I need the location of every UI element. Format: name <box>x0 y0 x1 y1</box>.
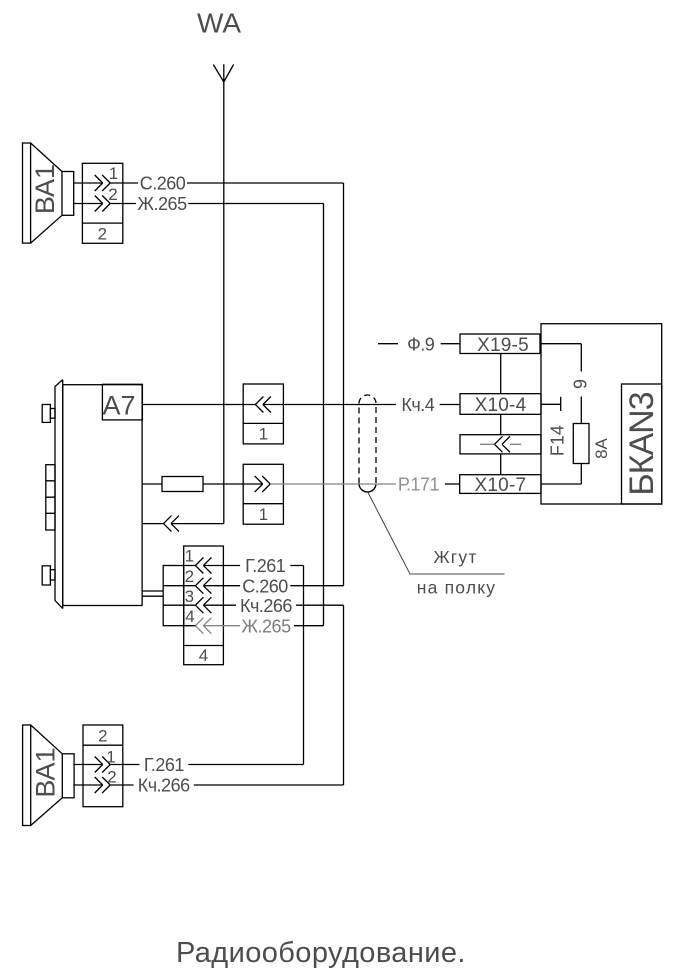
wire Kch.266 4-pin row3 <box>184 604 344 606</box>
svg-text:8А: 8А <box>592 437 611 458</box>
svg-text:Кч.266: Кч.266 <box>240 596 292 616</box>
wire C.260 top speaker <box>74 182 344 184</box>
svg-text:А7: А7 <box>102 390 135 420</box>
svg-text:Г.261: Г.261 <box>245 556 286 576</box>
pin chevrons top speaker row 1 <box>95 175 111 191</box>
chevrons 4-pin row3 <box>195 597 211 613</box>
wire P.171 black stub <box>445 483 460 485</box>
svg-text:WA: WA <box>197 8 241 39</box>
svg-text:9: 9 <box>571 379 591 389</box>
speaker BA1 bottom <box>23 725 75 826</box>
4-pin connector box <box>184 546 224 665</box>
4-pin connector comb <box>163 566 184 626</box>
wire vertical G.261 down to bottom speaker <box>303 566 305 765</box>
svg-text:2: 2 <box>107 768 116 787</box>
antenna WA <box>213 64 233 523</box>
wire Zh.265 4-pin row4 <box>184 625 324 627</box>
svg-text:Кч.4: Кч.4 <box>401 395 434 415</box>
svg-text:Ж.265: Ж.265 <box>241 616 291 636</box>
svg-text:Радиооборудование.: Радиооборудование. <box>176 937 466 969</box>
svg-text:2: 2 <box>108 185 117 204</box>
wire F.9 to X19-5 <box>441 343 461 345</box>
svg-text:С.260: С.260 <box>242 576 288 596</box>
svg-text:ВА1: ВА1 <box>30 164 60 214</box>
svg-text:на полку: на полку <box>417 578 497 598</box>
svg-text:1: 1 <box>185 547 194 566</box>
fuse F14 <box>573 424 589 464</box>
BKAN3 unit box <box>541 324 662 504</box>
chevrons 4-pin row2 <box>195 578 211 594</box>
wire radio row2 to box2 <box>142 483 263 485</box>
svg-text:Жгут: Жгут <box>433 547 477 567</box>
svg-text:3: 3 <box>185 587 194 606</box>
svg-text:Кч.266: Кч.266 <box>138 776 190 796</box>
wire vertical Zh.265 down to 4-pin connector <box>323 204 325 626</box>
radio A7 body <box>55 380 142 609</box>
connector of speaker BA1 bottom <box>83 725 123 807</box>
chevrons antenna plug <box>164 516 180 532</box>
chevrons in box 2 <box>255 476 271 492</box>
harness capsule dashed <box>359 395 376 492</box>
pin chevrons top speaker row 2 <box>95 196 111 212</box>
svg-text:С.260: С.260 <box>140 174 186 194</box>
wire vertical Kch.266 down to bottom speaker <box>343 605 345 785</box>
connector of speaker BA1 top <box>82 163 122 243</box>
grey wire P.171 from box2 to label <box>270 483 396 485</box>
svg-text:Г.261: Г.261 <box>144 755 185 775</box>
radio knob top <box>42 405 55 423</box>
chevrons 4-pin row4 grey <box>195 618 211 634</box>
terminal box X19-5 <box>460 334 540 354</box>
chevrons in box 1 <box>255 397 271 413</box>
radio knob bottom <box>42 566 55 585</box>
svg-text:БКАN3: БКАN3 <box>623 392 661 495</box>
antenna socket box <box>460 435 541 454</box>
fuse on radio row2 <box>162 477 203 492</box>
chevrons 4-pin row1 <box>195 558 211 574</box>
svg-text:Ж.265: Ж.265 <box>137 194 187 214</box>
wire F.9 dash <box>378 343 398 345</box>
terminal box X10-4 <box>460 394 541 415</box>
chevrons in antenna socket box <box>495 436 511 452</box>
svg-text:F14: F14 <box>547 425 567 456</box>
wire G.261 bottom speaker <box>73 764 303 766</box>
svg-text:4: 4 <box>199 646 208 665</box>
svg-text:2: 2 <box>98 224 107 243</box>
wire G.261 4-pin row1 <box>184 565 304 567</box>
svg-text:Р.171: Р.171 <box>398 475 440 495</box>
wire vertical C.260 down to 4-pin connector <box>343 183 345 586</box>
svg-text:Х10-4: Х10-4 <box>475 395 527 416</box>
svg-text:1: 1 <box>259 425 268 444</box>
wire Zh.265 top speaker <box>74 203 324 205</box>
pin chevrons bottom speaker row 1 <box>95 757 111 773</box>
grey line in antenna socket box <box>480 443 521 445</box>
svg-text:ВА1: ВА1 <box>31 747 61 797</box>
svg-text:Ф.9: Ф.9 <box>407 334 435 354</box>
connector U-box 2 <box>243 464 283 524</box>
pin chevrons bottom speaker row 2 <box>95 777 111 793</box>
leader line to harness label <box>368 493 505 575</box>
svg-text:2: 2 <box>98 726 107 745</box>
vertical link between terminal boxes <box>500 354 502 475</box>
wire antenna row to radio <box>143 523 224 525</box>
connector U-box 1 <box>243 384 283 444</box>
svg-text:1: 1 <box>259 505 268 524</box>
terminal stub of X10-4 <box>541 397 561 411</box>
wire Kch.266 bottom speaker <box>73 784 343 786</box>
svg-text:Х10-7: Х10-7 <box>475 475 527 496</box>
svg-text:1: 1 <box>109 164 118 183</box>
svg-text:1: 1 <box>106 748 115 767</box>
svg-text:Х19-5: Х19-5 <box>477 335 529 356</box>
radio middle connector cells <box>46 465 55 530</box>
wire radio row1 Kch.4 <box>142 404 460 406</box>
radio A7 label box <box>102 384 142 420</box>
terminal box X10-7 <box>460 475 541 494</box>
wire C.260 4-pin row2 <box>184 585 344 587</box>
speaker BA1 top <box>23 143 74 243</box>
svg-text:2: 2 <box>185 567 194 586</box>
svg-text:4: 4 <box>185 607 194 626</box>
BKAN3 label box <box>622 384 662 504</box>
wire X19-5 to fuse F14 <box>540 344 581 484</box>
radio to 4-pin comb double line <box>142 591 163 596</box>
